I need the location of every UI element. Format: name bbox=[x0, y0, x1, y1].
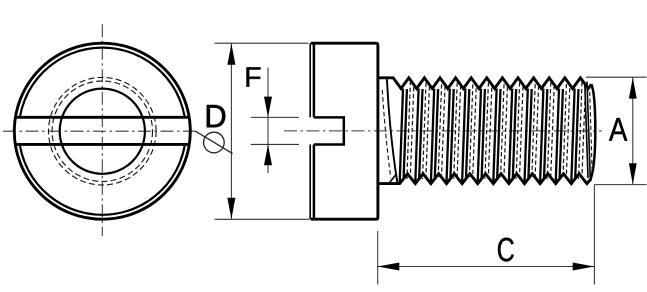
diameter symbol slash bbox=[195, 131, 232, 154]
front view horizontal centerline bbox=[3, 130, 199, 132]
head left edge lower bbox=[309, 144, 311, 219]
head chamfer line upper bbox=[313, 44, 316, 117]
label A bbox=[609, 118, 627, 141]
slot notch bbox=[314, 117, 344, 144]
slot top line bbox=[15, 116, 189, 119]
thread top profile bbox=[378, 78, 591, 89]
label D bbox=[207, 105, 225, 127]
dimension C arrow left bbox=[378, 263, 399, 271]
thread root hidden dashed lines bbox=[407, 81, 586, 179]
slot bottom line bbox=[15, 143, 189, 146]
diameter symbol circle bbox=[204, 132, 225, 153]
dimension D line bbox=[230, 43, 232, 219]
thread dashed circle 2 bbox=[52, 81, 152, 181]
dimension D bottom extension line bbox=[215, 218, 310, 220]
label C bbox=[498, 238, 514, 262]
dimension A bottom extension line bbox=[594, 184, 646, 186]
shank inner circle bbox=[60, 89, 145, 174]
dimension A line bbox=[632, 77, 634, 184]
dimension C right extension line bbox=[593, 185, 595, 285]
dimension D arrow up bbox=[227, 43, 235, 64]
thread end face inner edge bbox=[585, 82, 591, 180]
dimension C arrow right bbox=[573, 263, 594, 271]
head left edge upper bbox=[309, 43, 311, 117]
dimension A arrow up bbox=[629, 77, 637, 98]
dimension F line bbox=[267, 68, 269, 174]
thread runout flank bbox=[387, 79, 398, 183]
head chamfer line lower bbox=[313, 144, 316, 218]
head outline bbox=[311, 43, 378, 219]
front view vertical centerline bbox=[101, 24, 103, 236]
thread end face bbox=[590, 84, 595, 181]
dimension F arrow up bbox=[264, 144, 272, 165]
side view centerline bbox=[284, 130, 602, 132]
dimension F arrow down bbox=[264, 97, 272, 118]
label F bbox=[247, 67, 261, 86]
dimension F bottom extension line bbox=[251, 143, 299, 145]
thread major dashed circle bbox=[49, 77, 157, 185]
dimension F top extension line bbox=[251, 116, 299, 118]
thread bottom profile bbox=[378, 174, 591, 184]
dimension A arrow down bbox=[629, 163, 637, 184]
head outer circle bbox=[14, 43, 190, 219]
dimension D arrow down bbox=[227, 198, 235, 219]
dimension D top extension line bbox=[215, 42, 309, 44]
thread runout bottom sliver bbox=[389, 174, 396, 183]
dimension C line bbox=[378, 266, 595, 268]
thread runout root dashed bbox=[382, 90, 391, 178]
thread flank lines bbox=[400, 89, 579, 183]
dimension C left extension line bbox=[377, 231, 379, 285]
thread end face dashed line bbox=[590, 85, 593, 176]
dimension A top extension line bbox=[586, 76, 647, 78]
head chamfer circle (interrupted by slot) bbox=[19, 48, 186, 215]
